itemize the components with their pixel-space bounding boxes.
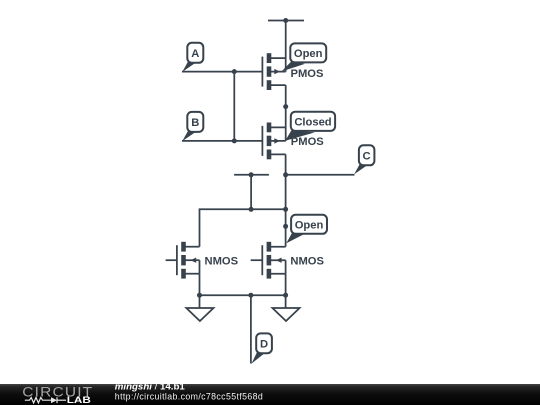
- wire ground rail: [200, 294, 286, 296]
- junction ground rail right: [283, 293, 288, 298]
- wire to left ground: [199, 295, 201, 308]
- svg-text:PMOS: PMOS: [291, 68, 324, 80]
- junction on stub segment: [249, 172, 254, 177]
- junction VDD: [283, 18, 288, 23]
- wire NMOS M3 drain up and rail across to output: [200, 209, 286, 246]
- junction flag Open attach on output node: [283, 224, 288, 229]
- NMOS M4: [251, 242, 286, 279]
- wire input B: [182, 140, 262, 142]
- footer bar: [0, 384, 540, 405]
- wire PMOS M2 source to output node down to NMOS M4 drain: [285, 154, 287, 246]
- wire stub down to rail: [250, 175, 252, 210]
- wire VDD supply bar: [268, 20, 304, 22]
- junction on B wire: [232, 138, 237, 143]
- flag A: [182, 43, 203, 72]
- junction between M1 and M2: [283, 104, 288, 109]
- wire NMOS M3 source down to ground rail: [199, 274, 201, 296]
- flag Open state of M4: [286, 215, 327, 243]
- junction ground rail at D: [248, 293, 253, 298]
- svg-text:LAB: LAB: [67, 395, 91, 405]
- ground left: [186, 308, 213, 321]
- wire output node to flag C: [286, 174, 355, 176]
- svg-text:NMOS: NMOS: [290, 256, 324, 268]
- wire PMOS M1 source to PMOS M2 drain: [285, 85, 287, 127]
- wire NMOS M4 source down to ground rail: [285, 274, 287, 296]
- svg-text:D: D: [260, 338, 268, 350]
- flag Closed state of M2: [285, 112, 335, 141]
- PMOS M2: [262, 123, 285, 160]
- svg-text:Open: Open: [294, 48, 323, 60]
- svg-text:C: C: [363, 150, 371, 162]
- flag B: [182, 112, 203, 141]
- junction output node at C wire: [283, 172, 288, 177]
- svg-text:Closed: Closed: [294, 117, 331, 129]
- flag Open state of M1: [281, 43, 326, 71]
- logo squiggle resistor and diode: [25, 397, 66, 403]
- flag D: [252, 333, 272, 363]
- wire input A: [182, 71, 262, 73]
- wire stub segment: [234, 174, 269, 176]
- ground right: [272, 308, 299, 321]
- svg-text:NMOS: NMOS: [205, 256, 239, 268]
- PMOS M1: [262, 53, 285, 90]
- flag C: [354, 145, 374, 174]
- junction on A wire: [232, 69, 237, 74]
- junction rail meets output node: [283, 207, 288, 212]
- svg-text:mingshi / 14.b1: mingshi / 14.b1: [115, 382, 185, 392]
- svg-text:B: B: [191, 117, 199, 129]
- wire down to flag D: [250, 295, 252, 363]
- svg-text:A: A: [191, 48, 199, 60]
- wire net A down to B wire: [233, 72, 235, 141]
- wire to right ground: [285, 295, 287, 308]
- svg-text:Open: Open: [295, 219, 324, 231]
- junction on rail: [249, 207, 254, 212]
- svg-text:http://circuitlab.com/c78cc55t: http://circuitlab.com/c78cc55tf568d: [115, 392, 263, 402]
- wire VDD to PMOS M1 drain: [285, 21, 287, 59]
- junction ground rail left: [197, 293, 202, 298]
- svg-text:PMOS: PMOS: [291, 136, 324, 148]
- NMOS M3: [166, 242, 200, 279]
